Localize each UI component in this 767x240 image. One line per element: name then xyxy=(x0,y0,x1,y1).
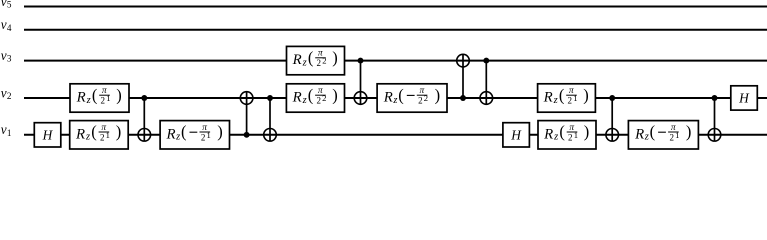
svg-text:v: v xyxy=(1,48,7,63)
wire v5 xyxy=(24,6,767,8)
gate Rz(pi/2^2) R5 on v2 xyxy=(286,84,344,112)
svg-text:H: H xyxy=(738,91,750,106)
svg-text:v: v xyxy=(1,122,7,137)
svg-text:R: R xyxy=(383,90,393,106)
svg-text:(: ( xyxy=(559,85,565,104)
wire v2 xyxy=(24,97,767,99)
qubit label v2 xyxy=(1,85,12,101)
gate Rz(-pi/2^2) R6 on v2 xyxy=(377,84,447,112)
svg-text:z: z xyxy=(644,132,649,143)
svg-text:2: 2 xyxy=(317,96,322,106)
svg-text:2: 2 xyxy=(7,91,12,101)
wire v3 xyxy=(24,60,767,62)
svg-text:2: 2 xyxy=(100,132,105,142)
gate Rz(pi/2^2) R4 on v3 xyxy=(287,46,345,74)
svg-text:z: z xyxy=(302,57,307,68)
svg-text:): ) xyxy=(332,85,338,104)
svg-text:2: 2 xyxy=(322,56,326,66)
svg-text:): ) xyxy=(583,85,589,104)
svg-text:1: 1 xyxy=(207,130,211,140)
svg-text:1: 1 xyxy=(7,128,12,138)
CNOT X5: control v2, target v3 xyxy=(457,54,470,101)
CNOT X1: control v2, target v1 xyxy=(138,95,151,141)
svg-text:(: ( xyxy=(91,122,97,141)
svg-text:(: ( xyxy=(559,122,565,141)
svg-text:2: 2 xyxy=(568,132,573,142)
qubit label v3 xyxy=(1,48,12,64)
svg-text:2: 2 xyxy=(322,93,326,103)
gate Rz(pi/2^1) R1 on v1 xyxy=(70,121,129,149)
svg-text:z: z xyxy=(85,132,90,143)
CNOT X3: control v2, target v1 xyxy=(264,95,277,141)
svg-text:2: 2 xyxy=(424,93,428,103)
gate Rz(pi/2^1) R8 on v1 xyxy=(538,121,596,149)
gate Rz(-pi/2^1) R9 on v1 xyxy=(628,121,698,149)
svg-text:z: z xyxy=(553,95,558,106)
gate H1 on v1 xyxy=(34,123,61,147)
svg-text:z: z xyxy=(553,132,558,143)
svg-text:R: R xyxy=(292,52,302,68)
svg-text:1: 1 xyxy=(106,130,110,140)
svg-text:1: 1 xyxy=(675,130,679,140)
svg-text:(: ( xyxy=(92,85,98,104)
svg-text:2: 2 xyxy=(201,132,206,142)
svg-text:(: ( xyxy=(181,122,187,141)
svg-text:): ) xyxy=(584,122,590,141)
CNOT X8: control v2, target v1 xyxy=(708,95,721,141)
svg-text:): ) xyxy=(116,85,122,104)
svg-text:2: 2 xyxy=(317,58,322,68)
svg-text:R: R xyxy=(75,126,85,142)
svg-text:1: 1 xyxy=(573,93,577,103)
svg-text:2: 2 xyxy=(101,96,106,106)
svg-text:1: 1 xyxy=(574,130,578,140)
svg-text:(: ( xyxy=(308,48,314,67)
CNOT X4: control v3, target v2 xyxy=(354,58,367,105)
svg-text:R: R xyxy=(543,90,553,106)
CNOT X7: control v2, target v1 xyxy=(606,95,619,141)
svg-text:R: R xyxy=(166,126,176,142)
svg-text:H: H xyxy=(42,127,54,142)
svg-text:): ) xyxy=(686,122,692,141)
svg-text:z: z xyxy=(392,95,397,106)
svg-text:): ) xyxy=(116,122,122,141)
qubit label v5 xyxy=(1,0,12,10)
svg-text:): ) xyxy=(217,122,223,141)
qubit label v4 xyxy=(1,17,12,33)
svg-text:): ) xyxy=(435,85,441,104)
gate H3 on v2 xyxy=(731,86,758,110)
svg-text:1: 1 xyxy=(106,93,110,103)
svg-text:z: z xyxy=(302,95,307,106)
svg-text:z: z xyxy=(86,95,91,106)
svg-text:2: 2 xyxy=(568,96,573,106)
gate Rz(-pi/2^1) R3 on v1 xyxy=(160,121,229,149)
svg-text:2: 2 xyxy=(669,132,674,142)
CNOT X6: control v3, target v2 xyxy=(480,58,493,105)
svg-text:H: H xyxy=(510,127,522,142)
svg-text:5: 5 xyxy=(7,0,12,10)
svg-text:2: 2 xyxy=(418,96,423,106)
svg-text:R: R xyxy=(634,126,644,142)
wire v4 xyxy=(24,29,767,31)
gate Rz(pi/2^1) R7 on v2 xyxy=(538,84,596,112)
qubit label v1 xyxy=(1,122,12,138)
svg-text:3: 3 xyxy=(7,54,12,64)
svg-text:v: v xyxy=(1,85,7,100)
svg-text:R: R xyxy=(76,90,86,106)
svg-text:v: v xyxy=(1,0,7,9)
svg-text:): ) xyxy=(332,48,338,67)
svg-text:R: R xyxy=(543,126,553,142)
svg-text:4: 4 xyxy=(7,23,12,33)
svg-text:v: v xyxy=(1,17,7,32)
CNOT X2: control v1, target v2 xyxy=(240,92,253,138)
svg-text:(: ( xyxy=(398,85,404,104)
wire v1 xyxy=(24,134,767,136)
svg-text:R: R xyxy=(292,90,302,106)
gate H2 on v1 xyxy=(503,123,530,147)
gate Rz(pi/2^1) R2 on v2 xyxy=(70,84,129,112)
svg-text:z: z xyxy=(175,132,180,143)
svg-text:(: ( xyxy=(650,122,656,141)
svg-text:(: ( xyxy=(308,85,314,104)
